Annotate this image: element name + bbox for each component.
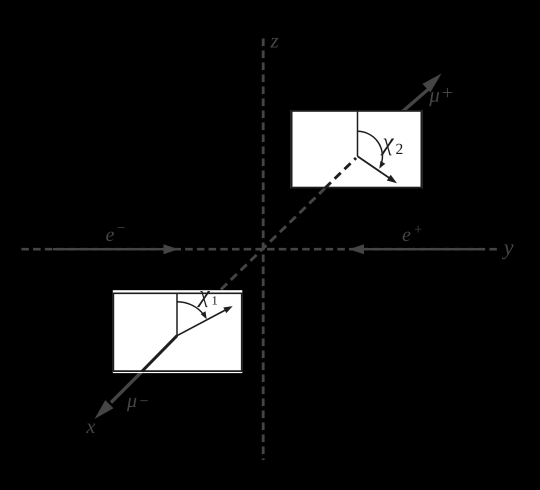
mu- momentum arrow bbox=[111, 371, 143, 403]
chi1 angle arc bbox=[177, 302, 204, 316]
z-axis dashed line bbox=[262, 39, 265, 461]
z label bbox=[270, 38, 278, 48]
upper rest-frame box (mu+) bbox=[291, 110, 423, 189]
dashed diagonal inside upper box bbox=[325, 158, 356, 188]
e+ beam arrow bbox=[363, 248, 481, 250]
chi1 label bbox=[197, 291, 217, 307]
e+ label bbox=[403, 226, 422, 241]
dashed diagonal boost axis bbox=[221, 158, 356, 290]
chi2 angle arc bbox=[358, 131, 383, 163]
upper box vertical reference line bbox=[357, 112, 359, 157]
chi2 label bbox=[380, 139, 402, 156]
mu+ momentum arrow bbox=[401, 90, 428, 113]
lower box thin arrow (mu- rest-frame direction) bbox=[177, 310, 225, 336]
e- beam arrow bbox=[53, 248, 165, 250]
lower rest-frame box (mu-) bbox=[113, 290, 243, 373]
lower box thick mu- shaft bbox=[142, 336, 177, 372]
x label bbox=[86, 424, 95, 433]
y label bbox=[502, 244, 514, 259]
mu- label bbox=[127, 398, 148, 411]
lower box vertical reference line bbox=[176, 294, 178, 336]
e- label bbox=[106, 227, 125, 241]
y-axis dashed line bbox=[21, 248, 499, 251]
upper box short arrow (mu+ rest-frame direction) bbox=[358, 156, 390, 178]
mu+ label bbox=[429, 88, 452, 106]
